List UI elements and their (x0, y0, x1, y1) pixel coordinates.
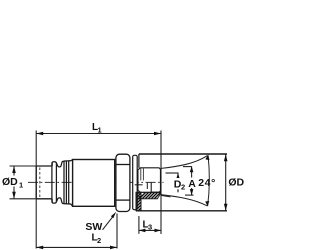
dimension L1 line (36, 132, 161, 136)
label A (187, 178, 196, 189)
cone lead-in edge (161, 195, 171, 197)
svg-text:2: 2 (97, 236, 101, 245)
label D2 (173, 178, 186, 190)
port outer top line (139, 153, 227, 155)
hex nut SW (116, 154, 130, 211)
hatched wall strip (130, 184, 144, 222)
nose cylinder (36, 166, 52, 199)
ring/groove profile top (52, 160, 73, 207)
svg-text:2: 2 (181, 183, 185, 192)
dimension L3 (139, 216, 161, 234)
port bore step line (section) (135, 184, 143, 186)
inner cone top line (161, 156, 207, 169)
dimension D2 (166, 173, 180, 192)
wire: L1/L2 left extension line (35, 131, 37, 249)
svg-text:24°: 24° (198, 177, 216, 189)
hatched thread band (138, 191, 168, 200)
collar ring (133, 155, 138, 209)
svg-text:ØD: ØD (228, 177, 244, 189)
svg-text:ØD: ØD (2, 176, 18, 188)
inner cone bottom line (161, 195, 207, 206)
label OD1 (2, 176, 25, 190)
sleeve body (73, 160, 115, 207)
nut bore rectangle lower half (151, 182, 160, 192)
centerline (28, 181, 164, 183)
dimension OD1 (left vertical) (10, 166, 36, 199)
wire: L1/L3 right extension line (160, 131, 162, 235)
port outer bottom line (136, 210, 227, 212)
dimension L2 (36, 214, 117, 250)
ring/groove profile bottom (mirror) (52, 198, 72, 206)
svg-text:1: 1 (19, 181, 23, 190)
hidden bore dashed line (39, 168, 41, 198)
stub thread body (135, 168, 161, 193)
thread runout lines (140, 168, 142, 181)
ring face verticals (51, 162, 53, 202)
svg-text:SW: SW (85, 221, 102, 233)
dimension OD right (224, 154, 228, 211)
svg-text:1: 1 (98, 125, 102, 134)
svg-text:A: A (188, 178, 196, 190)
port left face (138, 154, 140, 168)
svg-text:3: 3 (148, 223, 152, 232)
thread engagement mark (146, 183, 148, 189)
24 degree dimension arc (205, 155, 209, 207)
dimension A (183, 166, 194, 195)
